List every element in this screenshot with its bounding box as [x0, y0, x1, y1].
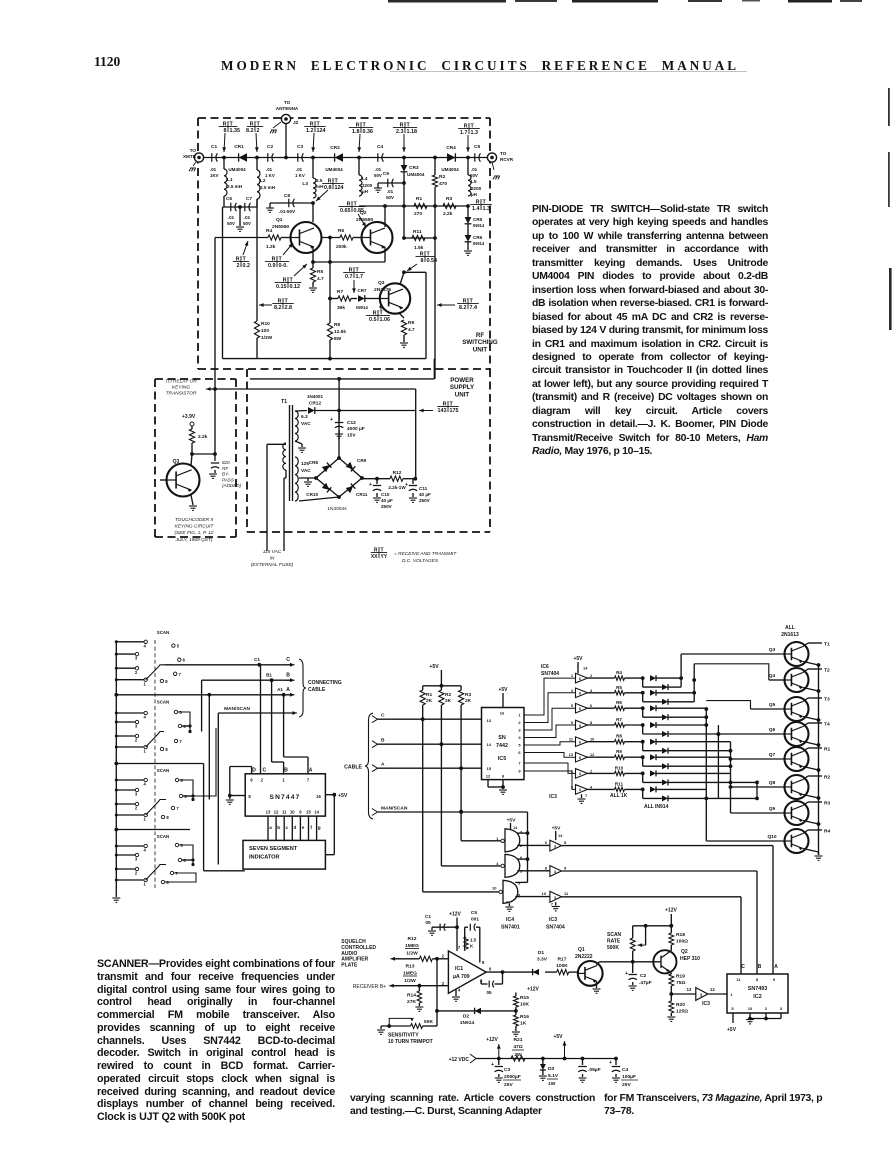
svg-text:R2: R2 [439, 174, 445, 180]
svg-text:5.1V: 5.1V [548, 1073, 559, 1079]
node rail-CR3 [402, 156, 406, 160]
svg-text:+: + [330, 417, 333, 423]
resistor 2.2k bias [191, 426, 193, 429]
inverter IC6-5 [576, 737, 588, 747]
svg-text:CABLE: CABLE [308, 687, 326, 693]
diode matrix row8 A [650, 786, 656, 792]
wire pin3 input [391, 985, 448, 987]
svg-text:UM4004: UM4004 [441, 167, 459, 172]
svg-text:2W: 2W [514, 1052, 522, 1058]
svg-text:+12V: +12V [486, 1037, 498, 1043]
svg-text:1: 1 [144, 882, 147, 887]
wire aux vertical [203, 764, 205, 871]
svg-text:100: 100 [261, 328, 269, 334]
resistor R1 2K [422, 686, 424, 690]
wire Q5 collector stub T3 [803, 698, 808, 702]
svg-text:C1: C1 [211, 144, 217, 150]
svg-text:.01: .01 [296, 167, 303, 172]
svg-text:SN7401: SN7401 [501, 925, 520, 931]
svg-text:6: 6 [518, 750, 521, 755]
wire Q7 collector stub R1 [803, 748, 808, 752]
diode CR4 UM4004 [447, 153, 455, 161]
capacitor C5 .01 50V [475, 153, 481, 161]
capacitor C3 2000uF 25V [498, 1059, 500, 1066]
svg-text:R9: R9 [408, 320, 414, 326]
resistor R8 12.5k 8W [327, 323, 332, 340]
svg-text:8: 8 [166, 815, 169, 820]
svg-text:(SEE FIG. 1, P. 12: (SEE FIG. 1, P. 12 [174, 530, 213, 536]
svg-text:3: 3 [135, 792, 138, 797]
node rail-L1 [222, 156, 226, 160]
svg-text:R10: R10 [615, 765, 624, 770]
svg-text:5: 5 [518, 743, 521, 748]
svg-text:16: 16 [500, 711, 505, 716]
wire man/scan line [217, 713, 219, 865]
switch S1 wiper [146, 665, 165, 680]
svg-text:C8: C8 [284, 193, 290, 199]
wire D2 row [437, 1010, 516, 1012]
Q1 emitter ground [596, 981, 598, 988]
svg-text:C: C [741, 964, 745, 970]
svg-text:D2: D2 [463, 1014, 470, 1020]
svg-text:c: c [285, 825, 288, 830]
resistor R17 100K [545, 971, 557, 973]
switch dashed wiper line [154, 640, 156, 888]
svg-text:0.65: 0.65 [340, 208, 351, 214]
paragraph SCANNER [97, 958, 335, 1124]
svg-text:CR8: CR8 [309, 460, 319, 465]
svg-text:1.4: 1.4 [472, 206, 480, 212]
svg-text:25V: 25V [504, 1082, 513, 1088]
svg-text:6: 6 [590, 703, 593, 708]
node bias-base [190, 452, 194, 456]
svg-text:12: 12 [486, 774, 491, 779]
svg-text:R13: R13 [406, 964, 415, 970]
svg-text:SN: SN [498, 735, 506, 741]
svg-text:25V: 25V [622, 1082, 631, 1088]
wire to IC2 [708, 993, 727, 995]
svg-text:11: 11 [569, 737, 574, 742]
capacitor 820 RF bypass [214, 454, 216, 461]
svg-text:C: C [286, 657, 290, 663]
svg-text:Q3: Q3 [769, 647, 776, 653]
svg-text:2N5550: 2N5550 [356, 217, 373, 223]
transistor Q4 2N1613 [785, 668, 809, 692]
switch S3 contact 6 [179, 794, 182, 797]
svg-text:R4: R4 [616, 670, 622, 675]
resistor R5 4.7 [310, 268, 315, 282]
diode matrix row7 A [650, 770, 656, 776]
svg-text:+5V: +5V [507, 818, 517, 824]
svg-text:R3: R3 [824, 801, 831, 807]
inductor L5 2200uH [467, 158, 469, 176]
svg-text:SENSITIVITY: SENSITIVITY [388, 1033, 419, 1039]
switch S4 contact 7 [170, 871, 173, 874]
svg-text:2K: 2K [465, 698, 472, 704]
svg-text:15: 15 [487, 766, 492, 771]
svg-text:RECEIVER B+: RECEIVER B+ [353, 984, 386, 990]
svg-text:.01: .01 [375, 167, 382, 172]
switch S4 contact 4 [116, 845, 144, 847]
svg-text:R17: R17 [558, 957, 567, 963]
wire R-voltage keying line [208, 388, 416, 390]
svg-text:3: 3 [518, 728, 521, 733]
svg-text:TO RELAY OR: TO RELAY OR [165, 379, 197, 385]
Q3 keying emitter ground [191, 495, 193, 505]
svg-text:50V: 50V [243, 221, 251, 226]
svg-text:8: 8 [165, 747, 168, 752]
svg-text:1N914: 1N914 [460, 1020, 475, 1026]
resistor R11 1K [588, 788, 615, 790]
svg-text:B: B [758, 964, 762, 970]
wire cable C row [378, 718, 482, 720]
capacitor C8 .01-50V [270, 202, 313, 204]
wire Q3 base [681, 653, 784, 655]
svg-text:C10: C10 [381, 492, 390, 497]
svg-text:40 µF: 40 µF [381, 498, 393, 503]
svg-text:+5V: +5V [573, 656, 583, 662]
svg-text:8.2: 8.2 [274, 305, 282, 311]
node matrix row 5 [641, 740, 645, 744]
svg-text:12: 12 [710, 987, 715, 992]
svg-text:13: 13 [487, 718, 492, 723]
wire R2 column [440, 705, 442, 866]
svg-text:4: 4 [144, 848, 147, 853]
svg-text:PLATE: PLATE [341, 963, 358, 969]
svg-text:SUPPLY: SUPPLY [450, 384, 475, 391]
svg-text:ALL: ALL [785, 625, 795, 631]
resistor R8 1K [588, 741, 615, 743]
node rail-L2 [255, 156, 259, 160]
svg-text:CR5: CR5 [473, 217, 483, 222]
svg-text:INDICATOR: INDICATOR [249, 855, 280, 861]
svg-text:1/2W: 1/2W [261, 335, 273, 341]
wire gate3 out [515, 896, 550, 898]
svg-text:+: + [609, 1060, 612, 1066]
switch S2 contact 3 [116, 721, 135, 723]
svg-text:1/2W: 1/2W [406, 951, 418, 957]
IC SN7447 box [245, 774, 325, 816]
svg-text:1: 1 [144, 749, 147, 754]
svg-text:47Ω: 47Ω [513, 1044, 522, 1050]
svg-text:D: D [252, 768, 256, 774]
svg-text:1.8: 1.8 [352, 129, 360, 135]
svg-text:= RECEIVE AND TRANSMIT: = RECEIVE AND TRANSMIT [394, 551, 457, 557]
svg-text:SN7447: SN7447 [269, 794, 300, 801]
wire C count line [562, 896, 742, 898]
Q1 collector [597, 962, 600, 966]
svg-text:B: B [381, 738, 385, 744]
wire IC1 output [486, 971, 538, 973]
svg-text:.01: .01 [387, 189, 394, 194]
switch S2 contact bracket [178, 712, 190, 732]
cable brace [365, 713, 373, 819]
svg-text:4: 4 [144, 715, 147, 720]
svg-text:IC5: IC5 [498, 756, 506, 762]
svg-text:1.2: 1.2 [306, 128, 314, 134]
svg-text:Q10: Q10 [767, 834, 776, 840]
transistor Q1 2N5550 [291, 222, 322, 253]
wire Q4 base [769, 679, 785, 681]
svg-text:100K: 100K [556, 963, 568, 969]
switch S2 wiper [146, 732, 164, 748]
svg-text:CR9: CR9 [357, 458, 367, 463]
resistor R5 1K [588, 692, 615, 694]
svg-text:VAC: VAC [301, 421, 311, 427]
switch S2 contact 5 [174, 710, 177, 713]
transistor Q5 2N1613 [785, 697, 809, 721]
svg-text:10: 10 [748, 1006, 753, 1011]
node matrix row 7 [641, 772, 645, 776]
wire gate1 out [517, 844, 550, 846]
svg-text:+: + [625, 971, 628, 977]
svg-text:CR4: CR4 [446, 145, 456, 151]
switch S4 contact bracket [179, 845, 193, 865]
transistor Q10 2N1613 [785, 829, 809, 853]
svg-text:IC3: IC3 [549, 794, 557, 800]
svg-text:2: 2 [590, 768, 593, 773]
wire gate2 in [441, 865, 501, 867]
svg-text:B: B [286, 673, 290, 679]
wire Q5 emitter [803, 717, 819, 721]
transistor Q3 touchcoder keying [167, 464, 200, 497]
svg-text:C11: C11 [419, 486, 428, 491]
svg-text:250V: 250V [419, 498, 431, 503]
svg-text:1: 1 [571, 768, 574, 773]
svg-text:A: A [309, 768, 313, 774]
svg-text:A: A [381, 762, 385, 768]
svg-text:6: 6 [489, 967, 492, 972]
wire A count line [562, 845, 774, 847]
switch S3 contact 4 [116, 779, 144, 781]
svg-text:8W: 8W [334, 336, 342, 342]
wire man/scan row [378, 811, 528, 813]
transformer T1 125VAC winding [295, 457, 298, 501]
diode matrix row1 A [650, 675, 656, 681]
matrix bus v4 [717, 725, 719, 798]
transistor Q3 2N2476 [380, 283, 410, 313]
node rail-L4 [357, 156, 361, 160]
svg-text:2: 2 [518, 720, 521, 725]
wire C6 C7 row [223, 206, 258, 208]
diode matrix row2 B [642, 693, 644, 702]
switch S2 contact 4 [116, 712, 144, 714]
capacitor C10 40uF 250V [376, 479, 378, 484]
node CR3 bottom [402, 181, 406, 185]
svg-text:TOUCHCODER II: TOUCHCODER II [175, 517, 214, 523]
svg-text:T3: T3 [824, 697, 830, 703]
svg-text:R15: R15 [520, 995, 529, 1001]
bridge rectifier CR8-CR11 [316, 458, 339, 478]
svg-text:C12: C12 [347, 420, 356, 426]
capacitor C11 40uF 250V [412, 479, 414, 484]
svg-text:UNIT: UNIT [455, 391, 470, 398]
wire cable B row [378, 743, 482, 745]
svg-text:Q4: Q4 [769, 673, 776, 679]
svg-text:2: 2 [135, 871, 138, 876]
transistor Q6 2N1613 [785, 722, 809, 746]
svg-text:1K: 1K [520, 1021, 527, 1027]
diode matrix row5 A [650, 739, 656, 745]
node matrix row 1 [641, 676, 645, 680]
node matrix row 3 [641, 706, 645, 710]
svg-text:.01: .01 [244, 215, 251, 220]
switch S1 contact 3 [116, 653, 135, 655]
svg-text:11: 11 [564, 891, 569, 896]
wire gate2 out [517, 870, 550, 872]
svg-text:270: 270 [414, 211, 422, 217]
svg-text:2200: 2200 [362, 183, 373, 188]
svg-text:D1: D1 [538, 950, 545, 956]
node matrix row 4 [641, 723, 645, 727]
svg-text:1.3: 1.3 [483, 206, 491, 212]
svg-text:SCAN: SCAN [607, 932, 622, 938]
zener D1 3.3V [533, 969, 539, 975]
svg-text:D.C. VOLTAGES: D.C. VOLTAGES [402, 558, 439, 564]
svg-text:6: 6 [183, 658, 186, 663]
resistor R4 1.2k [215, 237, 268, 239]
svg-text:175: 175 [450, 408, 459, 414]
svg-text:R9: R9 [616, 749, 622, 754]
wire Q4 collector stub T2 [803, 669, 808, 673]
diode CR11 [346, 484, 356, 494]
svg-text:2.8: 2.8 [285, 305, 293, 311]
svg-text:SN7493: SN7493 [748, 986, 767, 992]
scanner edge artifacts right margin [888, 88, 890, 126]
svg-text:(EXTERNAL FUSE): (EXTERNAL FUSE) [251, 562, 294, 568]
resistor R19 75ohm [670, 973, 672, 974]
svg-text:2K: 2K [426, 698, 433, 704]
svg-text:+: + [369, 482, 372, 488]
svg-text:.01: .01 [210, 167, 217, 172]
svg-text:f: f [310, 825, 312, 830]
capacitor C4 100uF 25V [615, 1059, 617, 1066]
resistor R9 1K [588, 756, 615, 758]
node rail-L5 [466, 156, 470, 160]
svg-text:C3: C3 [504, 1067, 511, 1073]
svg-text:16: 16 [316, 794, 321, 799]
svg-text:J2: J2 [293, 120, 299, 126]
svg-text:8: 8 [545, 866, 548, 871]
svg-text:IC3: IC3 [702, 1001, 710, 1007]
svg-text:e: e [302, 825, 305, 830]
switch S1 contact 1 [116, 679, 144, 681]
svg-text:d: d [293, 825, 296, 830]
svg-text:R7: R7 [337, 289, 343, 295]
svg-text:B: B [284, 768, 288, 774]
svg-text:Q1: Q1 [276, 217, 283, 223]
svg-text:.01: .01 [266, 167, 273, 172]
wire C12 column [338, 379, 340, 411]
connecting cable brace [299, 659, 306, 717]
svg-text:C: C [381, 713, 385, 719]
svg-text:8: 8 [248, 794, 251, 799]
svg-text:µH: µH [471, 192, 478, 197]
svg-text:R5: R5 [616, 685, 622, 690]
svg-text:+: + [405, 482, 408, 488]
capacitor C1 .01 1KV [212, 153, 218, 161]
svg-text:R8: R8 [616, 734, 622, 739]
resistor R3 2.2k [443, 203, 456, 208]
svg-text:3: 3 [571, 784, 574, 789]
diode CR10 [322, 483, 332, 493]
svg-text:µH: µH [362, 189, 369, 194]
svg-text:ALL IN914: ALL IN914 [644, 804, 669, 810]
svg-text:05: 05 [486, 990, 492, 995]
switch S3 contact 2 [116, 803, 135, 805]
svg-text:R6: R6 [338, 228, 344, 234]
switch S4 contact 1 [116, 879, 144, 881]
wire bus row g3 [116, 763, 203, 765]
svg-text:6.3: 6.3 [301, 414, 308, 420]
svg-text:JULY, 1969 QST): JULY, 1969 QST) [175, 537, 213, 543]
svg-text:SCAN: SCAN [157, 834, 169, 839]
wire Q7 base [731, 758, 785, 760]
switch S3 contact 1 [116, 814, 144, 816]
paragraph PIN-DIODE TR SWITCH [532, 203, 768, 459]
node L3-C8-Q1 collector [311, 201, 315, 205]
svg-text:1.7: 1.7 [356, 274, 364, 280]
inverter IC3-2 [550, 866, 562, 877]
svg-text:115 VAC: 115 VAC [263, 549, 282, 555]
svg-text:Q7: Q7 [769, 752, 776, 758]
wire collector rectangle [404, 271, 426, 273]
svg-text:C1: C1 [425, 914, 431, 920]
RF switching unit dashed border [198, 117, 490, 119]
svg-text:3: 3 [135, 656, 138, 661]
svg-text:1/2W: 1/2W [404, 978, 416, 984]
svg-text:SCAN: SCAN [157, 768, 169, 773]
resistor R7 1K [588, 724, 615, 726]
svg-text:b: b [277, 825, 280, 830]
transistor Q9 2N1613 [785, 801, 809, 825]
svg-text:8: 8 [165, 679, 168, 684]
inverter IC3-1 [550, 840, 562, 851]
wire main antenna rail [203, 157, 488, 159]
svg-text:1N4004s: 1N4004s [327, 506, 347, 512]
svg-text:VAC: VAC [301, 468, 311, 474]
svg-text:143: 143 [438, 408, 447, 414]
svg-text:+3.9V: +3.9V [182, 414, 196, 420]
connector J3 TO RCVR [487, 153, 496, 162]
svg-text:7: 7 [518, 761, 521, 766]
wire gate1 in [461, 840, 501, 842]
switch S1 contact 5 [172, 644, 175, 647]
svg-text:CR6: CR6 [473, 235, 483, 240]
svg-text:8.2: 8.2 [246, 128, 254, 134]
svg-text:1.06: 1.06 [380, 317, 391, 323]
svg-text:R2: R2 [824, 775, 831, 781]
svg-text:L4: L4 [362, 176, 368, 182]
svg-text:C9: C9 [383, 171, 389, 177]
svg-text:1.18: 1.18 [407, 129, 418, 135]
svg-text:40 µF: 40 µF [419, 492, 431, 497]
wire Q10 base [706, 840, 784, 842]
R1 bus wire [359, 205, 468, 207]
svg-text:0.12: 0.12 [290, 284, 301, 290]
switch S1 contact 7 [174, 672, 177, 675]
svg-text:+5V: +5V [338, 793, 348, 799]
svg-text:3.3V: 3.3V [537, 957, 548, 963]
svg-text:1.2k: 1.2k [266, 244, 276, 250]
svg-text:R10: R10 [261, 321, 270, 327]
wire Q6 collector stub T4 [803, 723, 808, 727]
svg-text:10: 10 [492, 886, 497, 891]
diode CR5 IN914 [467, 206, 469, 217]
matrix bus v3 [705, 708, 707, 841]
svg-text:50V: 50V [386, 195, 394, 200]
svg-text:14: 14 [487, 742, 492, 747]
